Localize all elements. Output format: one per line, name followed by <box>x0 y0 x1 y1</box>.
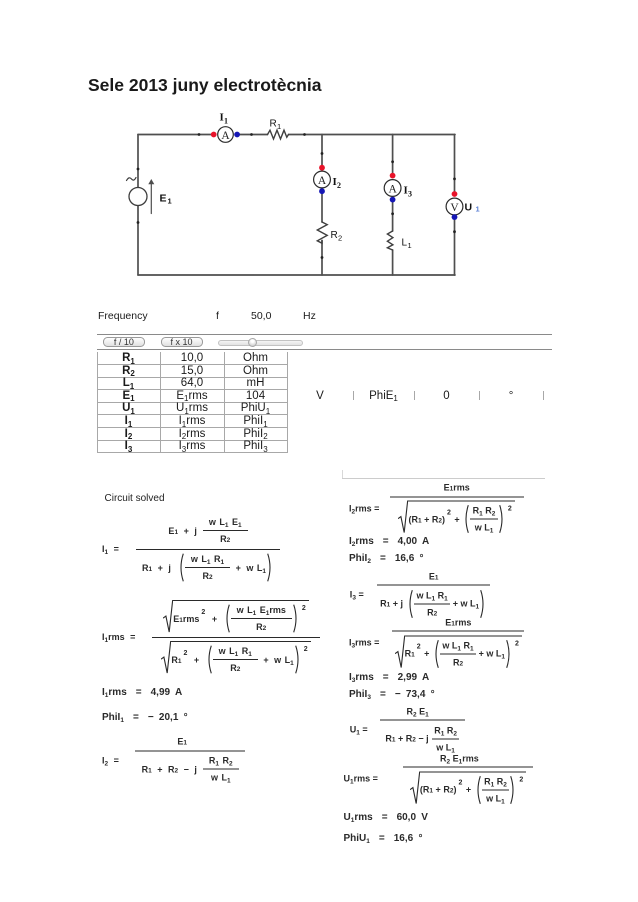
inductor L1 <box>387 231 393 250</box>
formula I1rms <box>102 598 320 676</box>
ammeter A1 blue terminal <box>234 132 240 138</box>
divider above right column <box>342 478 545 479</box>
svg-text:A: A <box>388 183 397 195</box>
table vertical grid lines <box>97 352 98 453</box>
ammeter A2 red terminal <box>319 165 325 171</box>
svg-text:U: U <box>465 202 473 214</box>
row I1 <box>97 415 160 428</box>
frequency label row <box>98 310 148 322</box>
wire branch I2 upper <box>321 135 323 166</box>
junction left wire below E1 <box>137 221 140 224</box>
junction top wire right of ammeter A1 <box>250 133 253 136</box>
svg-text:3: 3 <box>408 190 412 199</box>
svg-text:R: R <box>331 230 338 241</box>
wire from R1 to top-right corner <box>289 134 456 136</box>
title <box>88 75 321 96</box>
row R2 <box>97 365 160 378</box>
result PhiI2 <box>349 553 424 564</box>
source E1 <box>129 188 147 206</box>
svg-text:E: E <box>160 193 167 205</box>
svg-text:1: 1 <box>277 122 281 131</box>
formula U1 <box>350 704 465 755</box>
wire branch V upper <box>454 135 456 192</box>
wire branch I3 upper <box>392 135 394 174</box>
svg-text:2: 2 <box>338 234 342 243</box>
result I3rms <box>349 672 429 683</box>
result I2rms <box>349 536 429 547</box>
result U1rms <box>344 812 428 823</box>
source E1 arrow <box>150 182 152 214</box>
ammeter A2 <box>314 171 331 188</box>
formula I3rms <box>349 615 524 670</box>
row R1 <box>97 352 160 365</box>
junction I2 branch below R2 <box>321 256 324 259</box>
svg-text:1: 1 <box>408 241 412 250</box>
result PhiI3 <box>349 689 435 700</box>
ammeter A2 blue terminal <box>319 188 325 194</box>
svg-text:1: 1 <box>224 117 228 126</box>
frequency slider thumb <box>248 338 258 348</box>
wire branch V lower <box>454 220 456 276</box>
row I3 <box>97 440 160 453</box>
junction I2 branch above ammeter A2 <box>321 152 324 155</box>
wire top-left segment <box>138 134 212 136</box>
resistor R1 <box>268 130 289 139</box>
wire branch I3 lower <box>392 250 394 275</box>
row E1 extension cells <box>287 390 353 403</box>
result I1rms <box>102 687 182 698</box>
wire branch I3 middle <box>392 202 394 232</box>
ammeter A3 blue terminal <box>390 197 396 203</box>
svg-text:2: 2 <box>337 181 341 190</box>
formula U1rms <box>344 751 533 806</box>
frequency slider track <box>218 340 304 346</box>
junction I3 branch below ammeter A3 <box>391 212 394 215</box>
svg-text:R: R <box>270 119 277 130</box>
data table <box>0 0 1 1</box>
junction top wire left of ammeter A1 <box>198 133 201 136</box>
wire bottom <box>138 274 455 276</box>
junction I3 branch above ammeter A3 <box>391 160 394 163</box>
wire left vertical upper <box>137 135 139 188</box>
wire branch I2 middle <box>321 194 323 223</box>
wire left vertical lower <box>137 206 139 276</box>
svg-text:A: A <box>318 175 327 187</box>
result PhiI1 <box>102 712 188 723</box>
svg-text:V: V <box>450 202 459 214</box>
heading Circuit solved <box>105 493 165 504</box>
ammeter A1 <box>218 127 234 143</box>
wire between ammeter I1 and R1 <box>240 134 268 136</box>
ammeter A3 red terminal <box>390 173 396 179</box>
svg-text:1: 1 <box>476 205 480 214</box>
ammeter A1 red terminal <box>211 132 217 138</box>
formula I3 <box>350 569 490 620</box>
junction left wire above E1 <box>137 168 140 171</box>
svg-text:A: A <box>221 130 230 142</box>
row L1 <box>97 377 160 390</box>
table horizontal grid lines <box>97 364 287 365</box>
row U1 <box>97 402 160 415</box>
junction V branch above voltmeter <box>453 178 456 181</box>
formula I1 <box>102 514 280 584</box>
resistor R2 <box>317 222 327 243</box>
junction top wire right of R1 <box>303 133 306 136</box>
row E1 <box>97 390 160 403</box>
voltmeter V1 red terminal <box>452 191 458 197</box>
result PhiU1 <box>344 833 423 844</box>
junction V branch below voltmeter <box>453 230 456 233</box>
source E1 AC tilde mark <box>127 178 137 181</box>
row I2 <box>97 428 160 441</box>
voltmeter V1 blue terminal <box>452 214 458 220</box>
svg-text:1: 1 <box>168 197 172 206</box>
ammeter A3 <box>384 180 401 197</box>
formula I2rms <box>349 481 524 536</box>
wire branch I2 lower <box>321 241 323 276</box>
voltmeter V1 <box>446 198 463 215</box>
formula I2 <box>102 735 245 786</box>
